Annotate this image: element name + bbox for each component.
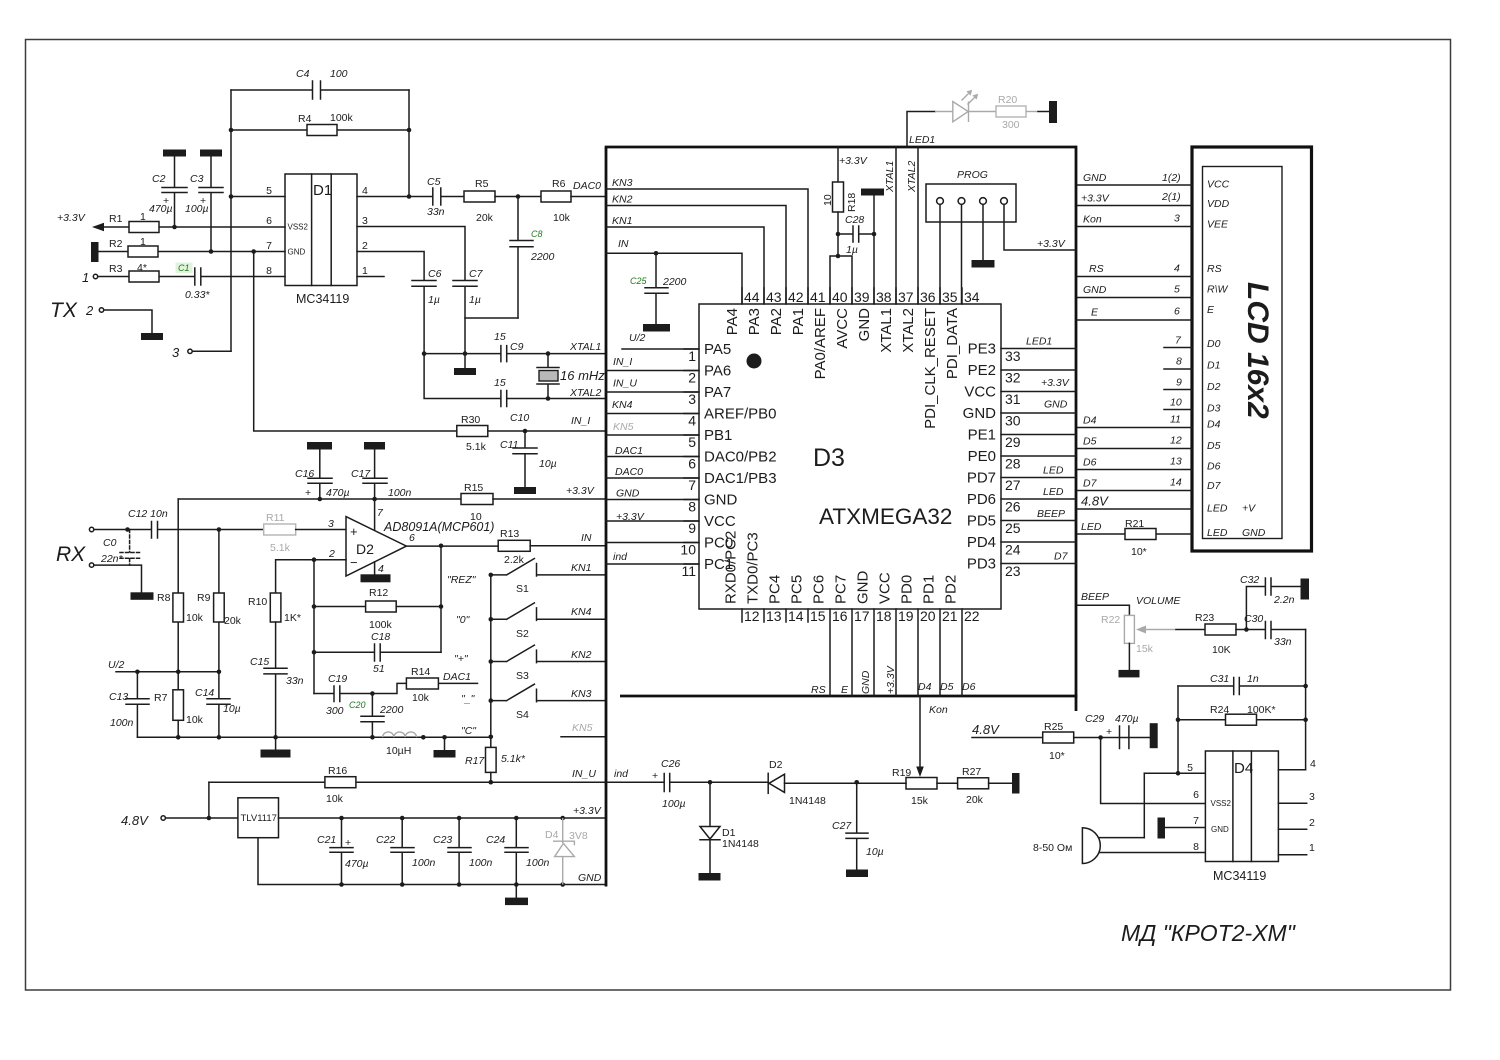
svg-text:2: 2 bbox=[85, 303, 94, 318]
svg-text:10*: 10* bbox=[1049, 750, 1065, 762]
svg-text:15k: 15k bbox=[911, 795, 929, 807]
ground R22 bbox=[1119, 670, 1140, 678]
svg-text:15: 15 bbox=[810, 608, 826, 624]
svg-text:LCD 16x2: LCD 16x2 bbox=[1241, 282, 1274, 419]
svg-text:MC34119: MC34119 bbox=[1213, 869, 1266, 883]
svg-text:C9: C9 bbox=[510, 341, 524, 353]
svg-text:100n: 100n bbox=[526, 857, 550, 869]
svg-text:10K: 10K bbox=[1212, 644, 1231, 656]
node junctions feedback bbox=[229, 128, 234, 133]
wire pin1 U/2 bbox=[622, 348, 699, 350]
svg-text:PDI_DATA: PDI_DATA bbox=[944, 308, 961, 379]
node output bbox=[439, 544, 444, 549]
capacitor C0 dashed bbox=[100, 530, 140, 566]
svg-text:D2: D2 bbox=[356, 541, 374, 557]
resistor R4 bbox=[231, 112, 409, 136]
resistor R17 bbox=[465, 747, 526, 782]
svg-text:PB1: PB1 bbox=[704, 427, 732, 444]
wire C4/R4 left vertical bbox=[230, 90, 232, 351]
svg-text:LED: LED bbox=[1081, 521, 1102, 533]
capacitor C7 bbox=[453, 268, 484, 354]
svg-text:10: 10 bbox=[822, 194, 834, 206]
svg-text:LED: LED bbox=[1207, 527, 1228, 539]
wire U/2 row bbox=[116, 671, 218, 673]
capacitor C30 bbox=[1244, 613, 1306, 648]
svg-text:PA3: PA3 bbox=[746, 308, 763, 335]
capacitor C16 bbox=[295, 450, 350, 500]
resistor R5 bbox=[464, 178, 541, 224]
node C8 top bbox=[516, 194, 521, 199]
svg-text:C23: C23 bbox=[433, 834, 452, 846]
node pin5 R24 bbox=[1176, 771, 1181, 776]
resistor R25 bbox=[1043, 721, 1150, 762]
wire ground rail bbox=[137, 736, 490, 738]
svg-text:1: 1 bbox=[140, 211, 146, 223]
svg-text:10k: 10k bbox=[186, 612, 204, 624]
svg-text:MC34119: MC34119 bbox=[296, 292, 349, 306]
resistor R30 bbox=[457, 414, 606, 453]
svg-text:R3: R3 bbox=[109, 263, 123, 275]
svg-text:D6: D6 bbox=[1083, 457, 1097, 469]
svg-text:PD5: PD5 bbox=[967, 513, 996, 530]
svg-text:IN_I: IN_I bbox=[613, 356, 632, 368]
svg-text:25: 25 bbox=[1005, 520, 1021, 536]
svg-text:1N4148: 1N4148 bbox=[789, 795, 826, 807]
wire pin3 line bbox=[357, 227, 465, 281]
capacitor C32 bbox=[1240, 574, 1301, 630]
wire LCD pin11 D4 bbox=[1078, 414, 1193, 428]
svg-text:100n: 100n bbox=[388, 487, 412, 499]
ground C11 bbox=[514, 487, 536, 494]
svg-text:D6: D6 bbox=[962, 681, 976, 693]
svg-text:13: 13 bbox=[766, 608, 782, 624]
svg-text:R16: R16 bbox=[328, 765, 347, 777]
node R24 right bbox=[1303, 717, 1308, 722]
ground rail C15 bbox=[261, 737, 291, 757]
wire XTAL2 row bbox=[424, 354, 606, 399]
svg-text:16 mHz: 16 mHz bbox=[560, 368, 605, 383]
svg-text:C28: C28 bbox=[845, 214, 864, 226]
wire +3.3V rail opamp bbox=[178, 498, 461, 500]
svg-text:C11: C11 bbox=[500, 439, 518, 451]
svg-text:33n: 33n bbox=[286, 675, 304, 687]
svg-text:26: 26 bbox=[1005, 499, 1021, 515]
svg-text:Kon: Kon bbox=[1083, 214, 1102, 226]
svg-text:100K*: 100K* bbox=[1247, 704, 1276, 716]
svg-text:C25: C25 bbox=[630, 276, 648, 286]
wire pin5 KN5 bbox=[606, 421, 699, 435]
svg-text:GND: GND bbox=[1242, 527, 1266, 539]
svg-text:PE1: PE1 bbox=[968, 427, 996, 444]
svg-text:C21: C21 bbox=[317, 834, 336, 846]
wire C30 down bbox=[1305, 630, 1307, 770]
wire D1 pin1 stub bbox=[357, 276, 384, 278]
wire pin4 KN4 bbox=[606, 399, 699, 414]
svg-text:R6: R6 bbox=[552, 178, 566, 190]
wire terminal2 to ground bbox=[105, 310, 153, 333]
svg-text:D5: D5 bbox=[1207, 440, 1221, 452]
svg-text:−: − bbox=[350, 555, 358, 570]
module box top edge bbox=[605, 146, 1076, 149]
svg-text:44: 44 bbox=[744, 289, 760, 305]
svg-text:8: 8 bbox=[1176, 356, 1182, 368]
ground bar above C3 bbox=[200, 150, 222, 157]
wire LCD pin2 +3.3V bbox=[1078, 191, 1193, 206]
diode D1 1N4148 bbox=[700, 782, 759, 873]
svg-text:R21: R21 bbox=[1125, 518, 1144, 530]
svg-text:22n*: 22n* bbox=[100, 553, 124, 565]
MCU bottom pin names bbox=[723, 531, 960, 604]
svg-text:KN5: KN5 bbox=[613, 421, 634, 433]
node C31 right bbox=[1303, 684, 1308, 689]
svg-text:C0: C0 bbox=[103, 537, 117, 549]
svg-text:+3.3V: +3.3V bbox=[566, 485, 595, 497]
svg-text:43: 43 bbox=[766, 289, 782, 305]
svg-text:5.1k: 5.1k bbox=[270, 542, 291, 554]
wire pin11 ind bbox=[606, 551, 699, 564]
svg-text:R19: R19 bbox=[892, 767, 911, 779]
svg-text:R5: R5 bbox=[475, 178, 489, 190]
svg-text:28: 28 bbox=[1005, 456, 1021, 472]
svg-text:15: 15 bbox=[494, 377, 506, 389]
ground C7 bbox=[454, 354, 476, 375]
wire XTAL1 vertical bbox=[884, 147, 896, 304]
svg-text:C5: C5 bbox=[427, 176, 441, 188]
svg-text:R13: R13 bbox=[500, 528, 519, 540]
svg-text:2: 2 bbox=[688, 370, 696, 386]
wire AREF AVCC bridge bbox=[830, 256, 852, 304]
node R12 left bbox=[312, 604, 317, 609]
potentiometer R22 bbox=[1101, 614, 1205, 670]
svg-text:31: 31 bbox=[1005, 391, 1021, 407]
wire RX bottom to ground bbox=[95, 565, 142, 592]
svg-text:10k: 10k bbox=[186, 714, 204, 726]
wire LCD pin1 GND bbox=[1078, 172, 1193, 185]
wire pin2 line bbox=[357, 252, 424, 281]
switch S4 bbox=[491, 684, 606, 721]
MCU left pin names bbox=[704, 341, 777, 573]
wire pin6 DAC1 bbox=[606, 445, 699, 457]
svg-text:C30: C30 bbox=[1244, 613, 1263, 625]
wire IN row bbox=[606, 253, 742, 304]
svg-text:XTAL2: XTAL2 bbox=[569, 387, 601, 399]
svg-text:DAC1: DAC1 bbox=[615, 445, 643, 457]
wire 4.8V to TLV bbox=[166, 817, 238, 819]
svg-text:20k: 20k bbox=[476, 212, 494, 224]
svg-text:D4: D4 bbox=[1083, 415, 1097, 427]
terminal RX bottom bbox=[89, 563, 93, 567]
svg-text:GND: GND bbox=[855, 571, 872, 605]
svg-text:5: 5 bbox=[688, 434, 696, 450]
svg-text:XTAL1: XTAL1 bbox=[569, 341, 601, 353]
svg-text:VCC: VCC bbox=[704, 513, 736, 530]
terminal 3 bbox=[172, 345, 192, 360]
svg-text:+3.3V: +3.3V bbox=[1081, 193, 1110, 205]
wire C8 bottom to C7 bbox=[465, 317, 518, 319]
svg-text:+3.3V: +3.3V bbox=[1041, 377, 1070, 389]
svg-text:2200: 2200 bbox=[662, 276, 687, 288]
MCU D3 ATXMEGA32 bbox=[699, 304, 1001, 609]
svg-text:2.2k: 2.2k bbox=[504, 554, 525, 566]
+3.3V arrow bbox=[57, 212, 104, 231]
svg-text:9: 9 bbox=[1176, 377, 1182, 389]
resistor R13 bbox=[498, 528, 606, 566]
svg-text:R4: R4 bbox=[298, 113, 312, 125]
ground RX bbox=[131, 592, 154, 600]
capacitor C5 bbox=[427, 176, 464, 218]
wire KN3 row bbox=[606, 189, 808, 304]
svg-text:C6: C6 bbox=[428, 268, 442, 280]
LED LED1 bbox=[935, 90, 996, 122]
wire PROG pin3 gnd bbox=[972, 204, 995, 267]
svg-text:R1: R1 bbox=[109, 213, 123, 225]
svg-text:+3.3V: +3.3V bbox=[57, 212, 86, 224]
svg-text:XTAL2: XTAL2 bbox=[906, 161, 918, 193]
MCU bottom pin stubs bbox=[742, 609, 808, 622]
svg-text:R24: R24 bbox=[1210, 704, 1229, 716]
svg-text:R10: R10 bbox=[248, 596, 267, 608]
svg-text:AD8091A(MCP601): AD8091A(MCP601) bbox=[383, 520, 494, 534]
capacitor C3 bbox=[185, 157, 223, 252]
svg-text:GND: GND bbox=[963, 405, 997, 422]
svg-text:DAC0: DAC0 bbox=[573, 180, 601, 192]
wire D4amp pin2 stub bbox=[1278, 828, 1306, 830]
svg-text:1: 1 bbox=[362, 265, 368, 277]
svg-text:8: 8 bbox=[1193, 841, 1199, 853]
wire pin4 line bbox=[357, 196, 432, 198]
svg-text:5.1k*: 5.1k* bbox=[501, 753, 526, 765]
svg-text:C24: C24 bbox=[486, 834, 505, 846]
ground D1 bbox=[699, 873, 721, 881]
resistor R8 bbox=[157, 499, 204, 672]
svg-text:3: 3 bbox=[328, 518, 334, 530]
svg-text:3: 3 bbox=[688, 391, 696, 407]
amplifier D4 MC34119 bbox=[1205, 751, 1278, 883]
resistor R24 bbox=[1178, 704, 1306, 725]
resistor R16 bbox=[325, 765, 356, 805]
svg-text:LED1: LED1 bbox=[909, 134, 935, 146]
svg-text:PE0: PE0 bbox=[968, 448, 996, 465]
module box right edge bbox=[1075, 146, 1078, 711]
MCU bottom pin numbers bbox=[744, 608, 980, 624]
resistor R6 bbox=[541, 178, 606, 224]
svg-text:8: 8 bbox=[266, 265, 272, 277]
inductor 10uH bbox=[383, 732, 417, 757]
svg-text:AVCC: AVCC bbox=[834, 308, 851, 349]
svg-text:6: 6 bbox=[1193, 789, 1199, 801]
svg-text:C15: C15 bbox=[250, 656, 269, 668]
svg-text:C4: C4 bbox=[296, 68, 310, 80]
svg-text:PD2: PD2 bbox=[943, 575, 960, 604]
svg-text:S2: S2 bbox=[516, 628, 529, 640]
svg-text:GND: GND bbox=[860, 670, 872, 694]
column nodes bbox=[489, 573, 494, 739]
svg-text:20: 20 bbox=[920, 608, 936, 624]
svg-text:IN_I: IN_I bbox=[571, 415, 590, 427]
svg-text:470µ: 470µ bbox=[149, 203, 173, 215]
wire output row bbox=[406, 545, 498, 547]
svg-text:PA7: PA7 bbox=[704, 384, 731, 401]
wire LCD pin10 stub bbox=[1164, 397, 1192, 410]
module box bottom edge bbox=[620, 695, 1077, 698]
capacitor C24 bbox=[486, 818, 550, 885]
node C3/R2 bbox=[209, 249, 214, 254]
MCU top pin names bbox=[724, 308, 961, 429]
MCU right pin wires to box edge bbox=[1001, 349, 1076, 564]
switch S1 bbox=[491, 559, 606, 596]
svg-text:KN5: KN5 bbox=[572, 722, 593, 734]
resistor R14 bbox=[372, 666, 477, 704]
node C16 rail bbox=[318, 497, 323, 502]
svg-text:9: 9 bbox=[688, 520, 696, 536]
svg-text:C31: C31 bbox=[1210, 673, 1229, 685]
capacitor C18 bbox=[314, 631, 441, 675]
svg-text:300: 300 bbox=[326, 705, 344, 717]
svg-text:ind: ind bbox=[613, 551, 628, 563]
capacitor C8 bbox=[510, 197, 555, 319]
svg-text:МД "КРОТ2-ХМ": МД "КРОТ2-ХМ" bbox=[1121, 920, 1297, 946]
wire IN_I from D1 gnd node bbox=[254, 252, 457, 432]
svg-text:IN_U: IN_U bbox=[572, 768, 596, 780]
svg-text:KN4: KN4 bbox=[571, 606, 592, 618]
svg-text:10µH: 10µH bbox=[386, 745, 411, 757]
svg-text:KN2: KN2 bbox=[571, 649, 592, 661]
resistor R21 bbox=[1125, 518, 1156, 558]
svg-text:D7: D7 bbox=[1054, 551, 1069, 563]
svg-text:10µ: 10µ bbox=[866, 846, 884, 858]
svg-text:"C": "C" bbox=[461, 725, 477, 737]
ground bar C24 bbox=[505, 885, 528, 906]
svg-text:DAC0/PB2: DAC0/PB2 bbox=[704, 449, 777, 466]
node U/2 C13 bbox=[135, 670, 140, 675]
terminal bar R2 bbox=[91, 242, 99, 262]
terminal bar C29 bbox=[1150, 723, 1158, 748]
crystal 16mHz bbox=[537, 351, 605, 401]
ground TX2 bbox=[141, 333, 163, 340]
svg-text:4: 4 bbox=[688, 413, 696, 429]
svg-text:10µ: 10µ bbox=[539, 458, 557, 470]
svg-text:PROG: PROG bbox=[957, 169, 988, 181]
svg-text:+3.3V: +3.3V bbox=[839, 155, 868, 167]
wire LCD pin4 RS bbox=[1078, 263, 1193, 277]
svg-text:PD0: PD0 bbox=[899, 575, 916, 604]
switch S2 bbox=[491, 603, 606, 640]
svg-text:300: 300 bbox=[1002, 119, 1020, 131]
node AREF bridge bbox=[836, 254, 841, 259]
capacitor C28 bbox=[838, 214, 874, 256]
wire XTAL2 vertical bbox=[906, 147, 918, 304]
capacitor C27 bbox=[832, 782, 884, 869]
svg-text:"+": "+" bbox=[454, 653, 469, 665]
svg-text:7: 7 bbox=[688, 477, 696, 493]
node C29 R25 bbox=[1098, 735, 1103, 740]
svg-text:C29: C29 bbox=[1085, 713, 1104, 725]
resistor R27 bbox=[958, 766, 1012, 806]
svg-text:R17: R17 bbox=[465, 755, 485, 767]
wire RX top bbox=[95, 529, 151, 531]
capacitor C2 bbox=[149, 157, 187, 228]
svg-text:"_": "_" bbox=[461, 693, 476, 705]
svg-text:PC6: PC6 bbox=[811, 575, 828, 604]
svg-text:IN_U: IN_U bbox=[613, 378, 637, 390]
svg-text:D0: D0 bbox=[1207, 338, 1221, 350]
svg-text:R9: R9 bbox=[197, 592, 211, 604]
svg-text:4.8V: 4.8V bbox=[121, 813, 149, 828]
svg-text:23: 23 bbox=[1005, 563, 1021, 579]
capacitor C20 bbox=[349, 694, 404, 738]
svg-text:1(2): 1(2) bbox=[1162, 172, 1181, 184]
svg-text:BEEP: BEEP bbox=[1037, 508, 1065, 520]
svg-text:100µ: 100µ bbox=[185, 203, 209, 215]
svg-text:IN: IN bbox=[618, 238, 629, 250]
svg-text:1N4148: 1N4148 bbox=[722, 838, 759, 850]
svg-text:C26: C26 bbox=[661, 758, 680, 770]
diode D2 1N4148 bbox=[768, 759, 857, 807]
node R23 C30 C32 bbox=[1244, 627, 1249, 632]
svg-text:RXD0/PC2: RXD0/PC2 bbox=[723, 531, 740, 604]
svg-text:VCC: VCC bbox=[964, 384, 996, 401]
svg-text:4*: 4* bbox=[137, 262, 147, 274]
svg-text:PE2: PE2 bbox=[968, 362, 996, 379]
wire speaker to pin5 bbox=[1143, 773, 1145, 837]
svg-text:42: 42 bbox=[788, 289, 804, 305]
wire LCD LED+V 4.8V bbox=[1078, 494, 1193, 510]
wire C4/R4 right vertical bbox=[408, 90, 410, 197]
svg-text:R23: R23 bbox=[1195, 612, 1214, 624]
svg-text:ATXMEGA32: ATXMEGA32 bbox=[819, 504, 952, 529]
svg-text:41: 41 bbox=[810, 289, 826, 305]
svg-text:TLV1117: TLV1117 bbox=[241, 813, 277, 824]
svg-text:6: 6 bbox=[409, 532, 415, 544]
svg-text:10k: 10k bbox=[553, 212, 571, 224]
resistor R15 bbox=[461, 482, 606, 523]
svg-text:RS: RS bbox=[811, 684, 826, 696]
connector PROG bbox=[926, 169, 1016, 222]
node U/2 R8 bbox=[176, 670, 181, 675]
svg-text:LED: LED bbox=[1207, 503, 1228, 515]
svg-text:4.8V: 4.8V bbox=[1081, 494, 1109, 509]
svg-text:100k: 100k bbox=[330, 112, 354, 124]
svg-text:D2: D2 bbox=[1207, 381, 1221, 393]
wire IN_U row bbox=[209, 781, 606, 783]
svg-text:20k: 20k bbox=[224, 615, 242, 627]
svg-text:18: 18 bbox=[876, 608, 892, 624]
svg-text:S3: S3 bbox=[516, 670, 529, 682]
ground bar above C2 bbox=[163, 150, 186, 157]
net labels MCU bottom rows bbox=[811, 665, 976, 696]
svg-text:GND: GND bbox=[1083, 172, 1107, 184]
capacitor C17 bbox=[351, 450, 412, 532]
svg-text:VCC: VCC bbox=[877, 572, 894, 604]
svg-text:R18: R18 bbox=[846, 193, 858, 212]
svg-text:15k: 15k bbox=[1136, 643, 1154, 655]
svg-text:36: 36 bbox=[920, 289, 936, 305]
svg-text:R20: R20 bbox=[998, 94, 1017, 106]
node C28 left bbox=[836, 232, 841, 237]
node C19/C20 bbox=[370, 691, 375, 696]
svg-text:R14: R14 bbox=[411, 666, 430, 678]
ground bar above C17 bbox=[364, 442, 385, 450]
capacitor C6 bbox=[412, 268, 442, 354]
wire pin8 GND bbox=[606, 488, 699, 500]
svg-text:PD1: PD1 bbox=[921, 575, 938, 604]
node C11 top bbox=[523, 429, 528, 434]
capacitor C19 bbox=[314, 673, 372, 717]
svg-text:GND: GND bbox=[288, 248, 306, 257]
svg-text:29: 29 bbox=[1005, 434, 1021, 450]
resistor R2 bbox=[99, 236, 286, 257]
svg-text:VCC: VCC bbox=[1207, 179, 1230, 191]
